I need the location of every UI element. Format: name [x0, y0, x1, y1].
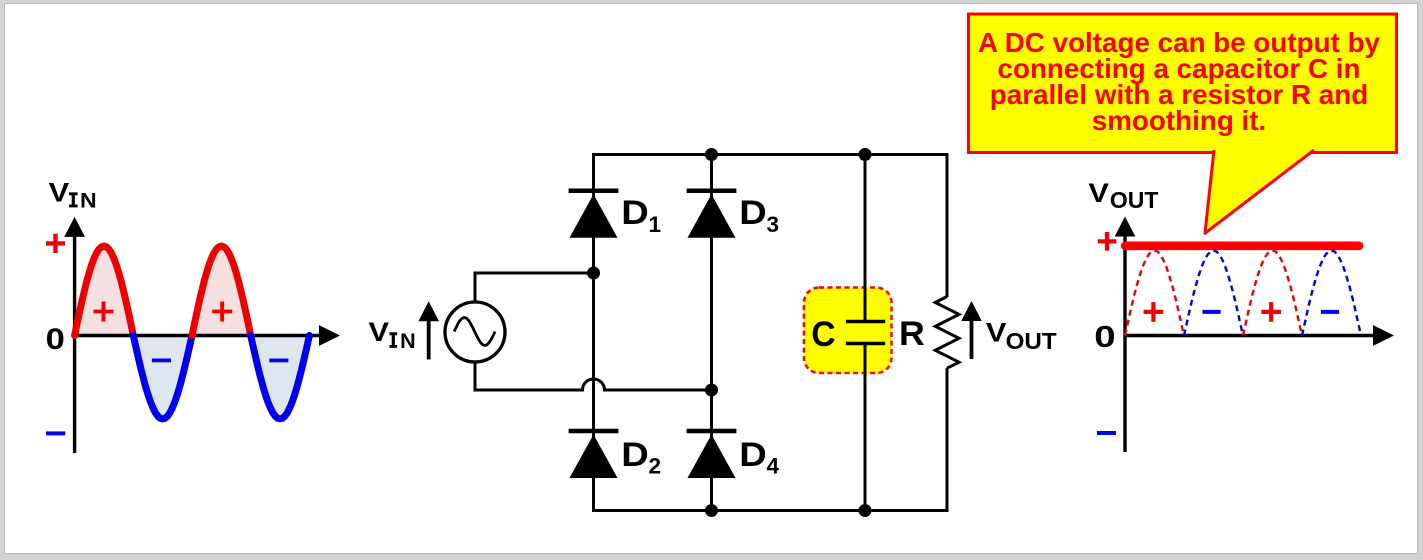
- y-axis of VIN graph: [64, 217, 85, 453]
- sine negative lobe 2 stroke: [251, 336, 310, 419]
- minus sign in negative lobe 1: [152, 359, 171, 363]
- wire: bottom rail: [594, 509, 948, 512]
- diode D4: [687, 431, 737, 478]
- junction node: top rail / capacitor branch: [859, 148, 872, 161]
- y-axis of VOUT graph: [1115, 217, 1136, 453]
- plus label on y-axis of VOUT graph: [1098, 232, 1117, 251]
- junction node: source top / left branch: [587, 267, 600, 280]
- svg-text:V: V: [49, 178, 70, 208]
- VOUT graph title: [1088, 178, 1158, 212]
- svg-text:OUT: OUT: [1006, 328, 1058, 355]
- sine positive lobe 1 stroke: [75, 246, 134, 336]
- diode D3: [687, 191, 737, 238]
- junction node: top rail / right branch: [705, 148, 718, 161]
- plus sign in positive lobe 1: [94, 302, 114, 322]
- svg-text:0: 0: [1094, 320, 1115, 355]
- VIN source label: [369, 317, 416, 352]
- label D2: [621, 435, 661, 479]
- x-axis of VOUT graph: [1125, 325, 1394, 346]
- plus label on y-axis of VIN graph: [46, 234, 65, 253]
- wire: capacitor branch bottom: [864, 344, 867, 513]
- svg-text:3: 3: [767, 212, 780, 237]
- svg-text:smoothing it.: smoothing it.: [1092, 105, 1266, 136]
- svg-text:V: V: [986, 318, 1007, 348]
- sine negative lobe 1 stroke: [133, 336, 192, 419]
- AC source sine symbol: [454, 318, 495, 346]
- x-axis of VIN graph: [75, 325, 340, 346]
- plus sign in positive lobe 2: [212, 302, 232, 322]
- svg-text:V: V: [1088, 178, 1109, 208]
- svg-text:1: 1: [649, 212, 662, 237]
- svg-text:0: 0: [46, 322, 65, 355]
- svg-text:D: D: [621, 193, 648, 232]
- diode D1: [569, 191, 619, 238]
- plus sign under arc 3: [1261, 302, 1281, 322]
- resistor R zigzag: [935, 297, 959, 369]
- svg-text:N: N: [400, 329, 416, 353]
- minus label on y-axis of VIN graph: [46, 431, 65, 435]
- svg-text:D: D: [739, 193, 766, 232]
- smoothed DC output line: [1125, 242, 1359, 251]
- junction node: bottom rail / right branch: [705, 504, 718, 517]
- AC source V1 circle: [445, 302, 505, 362]
- wire: left diode branch vertical: [592, 153, 595, 512]
- junction node: source bottom / right branch: [705, 384, 718, 397]
- wire: capacitor branch top: [864, 153, 867, 322]
- svg-text:V: V: [369, 317, 390, 347]
- callout bubble box: [969, 14, 1397, 153]
- capacitor C highlight box: [804, 288, 892, 374]
- minus sign in negative lobe 2: [269, 359, 288, 363]
- svg-text:R: R: [899, 315, 925, 353]
- rectified arc 3 (red dashed): [1243, 251, 1302, 336]
- VOUT polarity arrow: [961, 301, 982, 359]
- wire: source top lead: [475, 273, 594, 302]
- VOUT circuit label: [986, 318, 1057, 355]
- input waveform: negative lobe 2 fill: [251, 336, 310, 419]
- rectified arc 1 (red dashed): [1125, 251, 1184, 336]
- svg-text:D: D: [621, 435, 648, 474]
- minus label on y-axis of VOUT graph: [1097, 431, 1116, 435]
- label D3: [739, 193, 779, 237]
- svg-text:N: N: [80, 188, 97, 212]
- capacitor C plates: [846, 322, 885, 344]
- wire: resistor branch lower: [946, 368, 949, 512]
- rectified arc 2 (blue dashed): [1184, 251, 1243, 336]
- minus sign under arc 4: [1321, 310, 1339, 314]
- input waveform: positive lobe 2 fill: [192, 246, 251, 336]
- plus sign under arc 1: [1144, 302, 1164, 322]
- svg-text:OUT: OUT: [1110, 187, 1159, 213]
- junction node: bottom rail / capacitor branch: [859, 504, 872, 517]
- sine positive lobe 2 stroke: [192, 246, 251, 336]
- svg-text:C: C: [811, 315, 835, 354]
- label D1: [621, 193, 661, 237]
- rectified arc 4 (blue dashed): [1302, 251, 1361, 336]
- input waveform: positive lobe 1 fill: [75, 246, 134, 336]
- callout bubble tail: [1205, 150, 1314, 233]
- wire: source bottom lead with hop over left branch: [475, 362, 712, 390]
- wire: right diode branch vertical: [710, 153, 713, 512]
- VIN polarity arrow: [418, 301, 439, 359]
- svg-text:4: 4: [767, 454, 780, 479]
- minus sign under arc 2: [1203, 310, 1221, 314]
- VIN graph title: [49, 178, 97, 212]
- wire: resistor branch upper: [946, 153, 949, 297]
- diode D2: [569, 431, 619, 478]
- label D4: [739, 435, 779, 479]
- input waveform: negative lobe 1 fill: [133, 336, 192, 419]
- callout text: [978, 27, 1381, 136]
- wire: top rail: [594, 153, 948, 156]
- svg-text:2: 2: [649, 454, 662, 479]
- svg-text:D: D: [739, 435, 766, 474]
